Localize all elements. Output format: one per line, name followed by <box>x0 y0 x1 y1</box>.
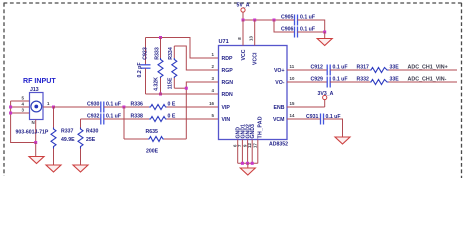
svg-text:VCC: VCC <box>241 49 247 60</box>
svg-text:N: N <box>32 120 35 125</box>
svg-text:R336: R336 <box>131 102 144 108</box>
node junction 5V-VCCI <box>253 19 256 22</box>
wire gnd stem caps <box>324 32 326 39</box>
svg-text:ADC_CH1_VIN-: ADC_CH1_VIN- <box>408 77 447 83</box>
capacitor C912 <box>311 65 348 76</box>
capacitor C929 <box>311 77 348 88</box>
node junction rail-pin4 <box>9 106 12 109</box>
ground symbol J13 <box>29 157 44 164</box>
resistor R338 <box>131 114 176 122</box>
node junction R333 bottom <box>159 93 162 96</box>
node junction rail-pin3 <box>9 112 12 115</box>
capacitor C932 <box>87 114 121 125</box>
svg-text:R338: R338 <box>131 114 144 120</box>
wire C929 to R332 <box>330 81 370 83</box>
node junction gnd bus 1 <box>241 162 244 165</box>
svg-text:49.9E: 49.9E <box>61 137 75 143</box>
svg-text:25E: 25E <box>86 137 96 143</box>
node junction R333 top <box>159 36 162 39</box>
svg-text:R334: R334 <box>168 47 174 60</box>
svg-text:AD8352: AD8352 <box>269 142 288 148</box>
sheet dashed border <box>4 3 463 178</box>
wire VO+ out <box>287 69 327 71</box>
svg-text:RGP: RGP <box>222 68 234 74</box>
wire C905 out to corner <box>298 20 325 32</box>
wire R338 to VIN <box>167 118 219 120</box>
capacitor C923 <box>137 38 151 95</box>
resistor R333 <box>154 38 164 95</box>
svg-text:U71: U71 <box>219 39 229 45</box>
wire pin4 stub <box>11 106 30 108</box>
svg-text:C912: C912 <box>311 65 324 71</box>
svg-text:17: 17 <box>253 143 258 148</box>
wire pin5 stub <box>11 100 30 102</box>
wire connector shell to ground rail <box>35 120 37 143</box>
svg-text:VIN: VIN <box>222 117 231 123</box>
node junction 5V-VCC <box>242 19 245 22</box>
svg-text:RF INPUT: RF INPUT <box>23 77 56 85</box>
svg-text:10: 10 <box>290 76 295 81</box>
svg-text:R332: R332 <box>357 77 370 83</box>
capacitor C905 <box>281 15 315 26</box>
resistor R317 <box>357 65 400 73</box>
svg-text:200E: 200E <box>146 149 159 155</box>
node junction gnd bus 2 <box>246 162 249 165</box>
svg-text:4.32K: 4.32K <box>154 77 160 91</box>
wire C930 to R336 <box>104 106 149 108</box>
svg-text:RDP: RDP <box>222 56 233 62</box>
resistor R430 <box>78 119 99 165</box>
wire RDN rail (pin4) <box>146 93 219 95</box>
svg-text:11: 11 <box>290 64 295 69</box>
wire line2 start at R430 <box>81 118 101 120</box>
svg-text:C932: C932 <box>87 114 100 120</box>
svg-text:VO+: VO+ <box>274 68 285 74</box>
svg-text:C906: C906 <box>281 27 294 33</box>
svg-text:ENB: ENB <box>274 105 285 111</box>
wire VCCI pin stub <box>254 20 256 46</box>
capacitor C931 <box>306 114 341 125</box>
svg-text:RDN: RDN <box>222 92 233 98</box>
svg-text:VCM: VCM <box>273 117 285 123</box>
node junction line1-R635 <box>122 106 125 109</box>
wire R332 to net <box>389 81 458 83</box>
svg-text:RGN: RGN <box>222 80 234 86</box>
wire VO- out <box>287 81 327 83</box>
node junction 5V-C906 <box>273 19 276 22</box>
ground symbol IC <box>240 168 255 175</box>
resistor R337 <box>51 107 75 165</box>
svg-text:C930: C930 <box>87 102 100 108</box>
svg-text:12: 12 <box>247 143 252 148</box>
wire ENB <box>287 106 325 108</box>
resistor R334 <box>167 46 218 89</box>
svg-text:903-601J-71P: 903-601J-71P <box>16 130 49 136</box>
wire R317 to net <box>389 69 458 71</box>
power symbol 3V3_A <box>318 91 334 107</box>
svg-text:C923: C923 <box>143 47 149 60</box>
svg-text:R430: R430 <box>86 129 99 135</box>
svg-text:13: 13 <box>249 36 254 41</box>
node junction caps gnd <box>323 31 326 34</box>
wire C932 to R338 <box>104 118 149 120</box>
svg-text:16: 16 <box>209 101 214 106</box>
wire C906 out <box>298 31 325 33</box>
wire gnd stem IC <box>247 163 249 168</box>
svg-text:VIP: VIP <box>222 105 231 111</box>
svg-text:C929: C929 <box>311 77 324 83</box>
svg-text:GND3: GND3 <box>250 124 256 139</box>
wire R336 to VIP <box>167 106 219 108</box>
capacitor C906 <box>281 27 315 38</box>
svg-text:R337: R337 <box>61 129 74 135</box>
svg-text:0.2 pF: 0.2 pF <box>137 63 143 78</box>
resistor R336 <box>131 102 176 110</box>
ground symbol R337 <box>46 165 61 172</box>
wire left ground rail <box>11 101 36 143</box>
svg-text:ADC_CH1_VIN+: ADC_CH1_VIN+ <box>408 65 448 71</box>
wire IC gnd stubs <box>238 140 258 164</box>
wire C906 riser <box>274 20 295 32</box>
wire VCC pin stub <box>242 20 244 46</box>
feedback network: top rail RDP net <box>146 38 219 59</box>
wire 5V rail <box>243 19 295 21</box>
node junction shell-rail <box>34 141 37 144</box>
wire VCM <box>287 118 321 120</box>
wire pin3 stub <box>11 112 30 114</box>
svg-text:115E: 115E <box>167 77 173 89</box>
wire main line to C930 <box>54 106 101 108</box>
svg-text:C905: C905 <box>281 15 294 21</box>
ground symbol caps <box>317 39 332 46</box>
svg-text:14: 14 <box>290 113 295 118</box>
resistor R332 <box>357 77 400 85</box>
wire pin1 stub <box>43 106 54 108</box>
svg-text:R635: R635 <box>146 129 159 135</box>
wire ground stem J13 <box>35 143 37 157</box>
node junction gnd bus 3 <box>251 162 254 165</box>
svg-text:R317: R317 <box>357 65 370 71</box>
wire RGN pin3 to riser <box>186 82 218 139</box>
power symbol 5V_A <box>237 3 250 21</box>
connector J13 body <box>30 93 44 120</box>
svg-text:C931: C931 <box>306 114 319 120</box>
svg-text:VO-: VO- <box>275 80 284 86</box>
wire C912 to R317 <box>330 69 370 71</box>
capacitor C930 <box>87 102 121 113</box>
node junction R334 bottom riser <box>185 87 188 90</box>
svg-text:15: 15 <box>290 101 295 106</box>
svg-text:TH_PAD: TH_PAD <box>257 116 263 138</box>
svg-text:R333: R333 <box>155 47 161 60</box>
op-amp U71 body <box>219 39 289 148</box>
node junction main-R337 <box>52 106 55 109</box>
resistor R635 bridge <box>124 107 186 155</box>
wire C931 to gnd corner <box>324 119 343 137</box>
svg-text:VCCI: VCCI <box>253 52 259 65</box>
ground symbol R430 <box>73 165 88 172</box>
ground symbol C931 <box>335 137 350 144</box>
